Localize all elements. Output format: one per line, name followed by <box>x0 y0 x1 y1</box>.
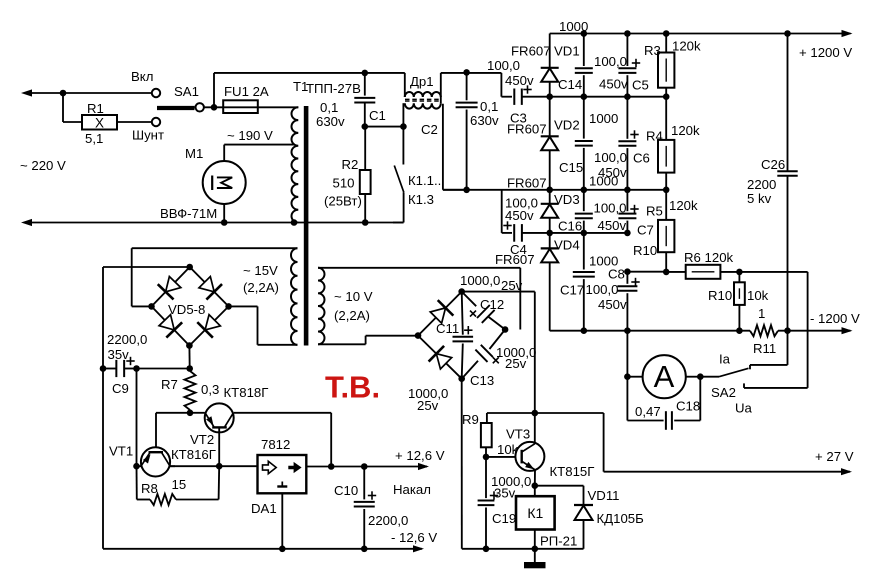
label К1.3 <box>408 192 434 207</box>
wire ~220V line-2 bottom with left arrow <box>21 219 403 226</box>
label 2200,0 (C10) <box>368 513 408 528</box>
label + 27 V <box>815 449 854 464</box>
label - 12,6 V <box>391 530 437 545</box>
svg-text:R3: R3 <box>644 43 661 58</box>
svg-text:Шунт: Шунт <box>132 128 164 143</box>
svg-text:450v: 450v <box>505 208 534 223</box>
svg-text:Др1: Др1 <box>410 74 434 89</box>
node R7 top / bridge plus <box>186 365 193 372</box>
node C14 top <box>581 30 588 37</box>
svg-text:К1.1..: К1.1.. <box>408 173 441 188</box>
svg-text:R7: R7 <box>161 377 178 392</box>
svg-text:25v: 25v <box>505 356 527 371</box>
capacitor C11 <box>453 292 474 379</box>
svg-text:120k: 120k <box>669 198 698 213</box>
label C7 <box>637 223 654 238</box>
wire -12,6V rail <box>103 545 424 552</box>
label R5 <box>646 204 663 219</box>
capacitor C1 <box>354 73 375 127</box>
wire motor to bottom rail <box>223 204 225 223</box>
label - 1200 V <box>810 311 860 326</box>
label Др1 <box>410 74 434 89</box>
node C1 top <box>362 70 369 77</box>
node ТВ bridge left <box>415 332 422 339</box>
svg-text:R5: R5 <box>646 204 663 219</box>
transformer T1 winding 10V <box>318 268 325 345</box>
label SA2 <box>711 385 736 400</box>
ground <box>524 549 546 569</box>
label C15 <box>559 160 583 175</box>
svg-text:A: A <box>654 359 675 394</box>
label VD5-8 <box>168 302 205 317</box>
label Вкл <box>131 69 153 84</box>
wire row D <box>522 232 628 234</box>
label 1000 (C17) <box>589 254 618 269</box>
node VD2-VD3 junction row C <box>546 187 553 194</box>
label 1000,0 (C11) <box>408 386 448 401</box>
resistor R3 <box>658 34 674 97</box>
diode VD6 (upper-right) <box>199 277 222 300</box>
svg-text:R4: R4 <box>646 129 663 144</box>
capacitor C14 <box>575 34 593 97</box>
svg-text:К1: К1 <box>527 505 543 521</box>
resistor R5 <box>658 190 674 272</box>
label C8 <box>608 267 625 282</box>
node C5 bottom <box>624 93 631 100</box>
node ТВ bridge bottom <box>458 375 465 382</box>
svg-text:630v: 630v <box>470 113 499 128</box>
node minus line C9 tap <box>100 365 107 372</box>
node R11-C26 junction <box>784 327 791 334</box>
resistor R4 <box>658 97 674 190</box>
resistor R10 <box>734 272 745 331</box>
label C6 <box>633 151 650 166</box>
capacitor C12 (top-right leg) <box>462 292 505 330</box>
switch SA1 contact Шунт (open circle) <box>152 118 160 126</box>
label C26 <box>761 157 785 172</box>
svg-text:~ 10 V: ~ 10 V <box>334 289 373 304</box>
regulator DA1 7812 <box>258 455 307 493</box>
svg-text:Накал: Накал <box>393 482 431 497</box>
wire VT3 base <box>486 456 524 458</box>
svg-text:120k: 120k <box>672 39 701 54</box>
wire ammeter right <box>686 376 701 378</box>
label Накал <box>393 482 431 497</box>
svg-text:~ 220 V: ~ 220 V <box>20 158 66 173</box>
svg-text:ТПП-27В: ТПП-27В <box>306 81 361 96</box>
label ВВФ-71М <box>160 206 217 221</box>
capacitor C18 <box>666 411 672 430</box>
svg-text:Вкл: Вкл <box>131 69 153 84</box>
svg-text:КТ816Г: КТ816Г <box>171 447 216 462</box>
svg-text:630v: 630v <box>316 114 345 129</box>
label C13 <box>470 373 494 388</box>
label 0,1 (C2) <box>480 99 498 114</box>
label C12 <box>480 297 504 312</box>
plus C11 <box>464 326 472 334</box>
svg-text:C6: C6 <box>633 151 650 166</box>
label FR607 (VD3) <box>507 176 547 191</box>
svg-text:VT3: VT3 <box>506 427 530 442</box>
svg-text:VD11: VD11 <box>588 488 620 503</box>
wire bridge plus down <box>188 346 190 369</box>
node C1 bottom <box>362 123 369 130</box>
wire bridge minus to left column <box>103 267 190 549</box>
svg-text:VT1: VT1 <box>109 444 133 459</box>
label ~ 220 V <box>20 158 66 173</box>
capacitor C6 <box>618 97 636 190</box>
svg-text:C8: C8 <box>608 267 625 282</box>
wire ammeter drop <box>626 331 628 377</box>
svg-text:10k: 10k <box>747 288 769 303</box>
label R3 <box>644 43 661 58</box>
svg-text:M1: M1 <box>185 146 203 161</box>
node motor on rail <box>221 219 228 226</box>
plus C5 <box>632 59 640 67</box>
label VD1 <box>554 44 580 59</box>
label 1000 (C14) <box>559 19 588 34</box>
label 120k (R4) <box>671 123 700 138</box>
label (2,2А) 10V <box>334 308 370 323</box>
wire row C <box>443 189 666 191</box>
label 450v (C3) <box>505 73 534 88</box>
wire choke B left down to K1 node <box>402 103 404 126</box>
wire -1200 rail left <box>550 330 750 332</box>
wire row E <box>627 271 666 273</box>
capacitor C8 <box>617 272 637 331</box>
wire corner into C4 <box>502 190 512 233</box>
label 15 <box>172 477 187 492</box>
node VT1 emitter <box>133 463 140 470</box>
wire -1200 rail right <box>778 327 853 334</box>
label 630v (C1) <box>316 114 345 129</box>
svg-text:C16: C16 <box>558 219 582 234</box>
label C2 <box>421 122 438 137</box>
label 450v (C8) <box>598 297 627 312</box>
label Шунт <box>132 128 164 143</box>
wire ~220V line-1 top with left arrow <box>21 89 152 96</box>
label 25v (C11) <box>417 398 439 413</box>
node bridge left corner <box>148 303 155 310</box>
diode VD3 <box>541 190 559 233</box>
wire row B <box>550 96 667 98</box>
node C9 plus junction <box>133 365 140 372</box>
node ТВ bridge top <box>458 288 465 295</box>
label 5,1 <box>85 131 103 146</box>
node R4-R5 junction <box>663 187 670 194</box>
wire VT2 base down <box>218 428 220 466</box>
label C19 <box>492 511 516 526</box>
svg-text:FU1 2A: FU1 2A <box>224 84 269 99</box>
label 2200,0 (C9) <box>107 332 147 347</box>
switch K1.1-K1.3 <box>393 127 404 223</box>
svg-text:0,47: 0,47 <box>635 404 661 419</box>
svg-text:C10: C10 <box>334 483 358 498</box>
wire +27V output <box>604 468 852 475</box>
label VD3 <box>554 192 580 207</box>
capacitor C3 <box>514 89 549 105</box>
svg-text:C7: C7 <box>637 223 654 238</box>
node C8 top <box>624 268 631 275</box>
label VD2 <box>554 118 580 133</box>
label 0,47 <box>635 404 661 419</box>
label C17 <box>560 282 584 297</box>
ammeter A <box>627 355 685 398</box>
label 7812 <box>261 437 290 452</box>
label SA1 <box>174 84 199 99</box>
label ~ 10 V <box>334 289 373 304</box>
svg-text:C9: C9 <box>112 381 129 396</box>
label C18 <box>676 399 700 414</box>
plus C6 <box>630 130 638 138</box>
node C26 top <box>784 30 791 37</box>
label 510 <box>333 176 355 191</box>
label R4 <box>646 129 663 144</box>
node ammeter left <box>624 373 631 380</box>
node VD3-VD4 junction row D <box>546 230 553 237</box>
label К1.1.. <box>408 173 441 188</box>
label C5 <box>632 78 649 93</box>
label 1 (R11) <box>758 306 765 321</box>
svg-text:VD5-8: VD5-8 <box>168 302 205 317</box>
node bridge right corner <box>225 303 232 310</box>
node C17 bottom <box>581 327 588 334</box>
plus C4 <box>503 221 511 229</box>
transistor VT1 КТ816Г <box>137 447 176 476</box>
label FR607 (VD4) <box>495 252 535 267</box>
svg-text:(2,2А): (2,2А) <box>243 280 279 295</box>
svg-text:2200,0: 2200,0 <box>368 513 408 528</box>
label C14 <box>558 77 582 92</box>
svg-text:120k: 120k <box>671 123 700 138</box>
cross C13 <box>493 357 499 363</box>
wire VT3 collector to +27 corner <box>535 413 604 472</box>
svg-text:C15: C15 <box>559 160 583 175</box>
capacitor C4 <box>514 224 522 242</box>
svg-text:DA1: DA1 <box>251 501 277 516</box>
svg-text:100,0: 100,0 <box>586 282 619 297</box>
wire +1200 rail <box>550 30 853 37</box>
label 100,0 (C5) <box>594 54 627 69</box>
svg-text:VD4: VD4 <box>554 238 580 253</box>
label R1 <box>87 101 104 116</box>
transistor VT3 КТ815Г <box>515 442 544 471</box>
label 1000,0 (C12) <box>460 273 500 288</box>
label 100,0 (C6) <box>594 150 627 165</box>
node DA1 ground on rail <box>279 546 286 553</box>
capacitor C17 <box>573 233 595 331</box>
svg-text:R2: R2 <box>342 157 359 172</box>
transistor VT2 КТ818Г <box>205 403 234 432</box>
wire top line choke to C3 corner <box>441 72 502 74</box>
wire VT1 emitter drop <box>136 369 138 467</box>
svg-text:R10: R10 <box>708 288 732 303</box>
label 100,0 (C4) <box>505 196 538 211</box>
capacitor C26 <box>777 34 797 331</box>
label Ua <box>735 401 753 416</box>
svg-text:РП-21: РП-21 <box>540 534 577 549</box>
wire VT3 collector up <box>534 413 536 444</box>
label 630v (C2) <box>470 113 499 128</box>
label VT1 <box>109 444 133 459</box>
node bridge top corner <box>186 264 193 271</box>
svg-text:510: 510 <box>333 176 355 191</box>
wire VT1 collector to 7812 <box>170 465 258 467</box>
svg-text:- 1200 V: - 1200 V <box>810 311 860 326</box>
svg-text:ВВФ-71М: ВВФ-71М <box>160 206 217 221</box>
diode VD2 <box>541 97 559 190</box>
wire 10V bottom lead <box>318 336 418 345</box>
svg-text:FR607: FR607 <box>511 44 551 59</box>
svg-text:100,0: 100,0 <box>594 54 627 69</box>
wire top line to choke <box>214 72 405 74</box>
svg-text:(25Вт): (25Вт) <box>324 194 362 209</box>
wire branch up from SA1 node <box>213 73 215 107</box>
capacitor C15 <box>575 97 593 190</box>
resistor R1 (shunt X) <box>63 115 152 130</box>
svg-text:100,0: 100,0 <box>487 58 520 73</box>
wire 190V tap <box>224 145 295 161</box>
diode VD11 <box>574 505 593 549</box>
node C14 bottom <box>581 93 588 100</box>
svg-text:SA1: SA1 <box>174 84 199 99</box>
node K1 bottom on rail <box>532 546 539 553</box>
svg-text:C17: C17 <box>560 282 584 297</box>
svg-text:100,0: 100,0 <box>594 150 627 165</box>
node bridge bottom corner <box>186 342 193 349</box>
label 25v (C12) <box>501 278 523 293</box>
svg-text:Т.В.: Т.В. <box>325 370 380 405</box>
svg-text:C14: C14 <box>558 77 582 92</box>
svg-text:0,1: 0,1 <box>320 100 338 115</box>
wire plus link C9 to R7 <box>137 368 191 370</box>
label + 12,6 V <box>395 448 445 463</box>
svg-text:2200,0: 2200,0 <box>107 332 147 347</box>
wire R9 top link <box>487 413 535 423</box>
node SA1 output <box>211 104 218 111</box>
label КТ815Г <box>550 464 595 479</box>
node junction on line-1 <box>60 90 67 97</box>
node C6 bottom <box>624 187 631 194</box>
resistor R8 zigzag <box>137 466 220 505</box>
wire SA1 to fuse <box>205 106 224 108</box>
wire base link left <box>156 413 190 456</box>
label R9 <box>462 412 479 427</box>
svg-text:450v: 450v <box>598 218 627 233</box>
resistor R11 zigzag <box>750 325 778 336</box>
node R7 bottom <box>187 410 194 417</box>
wire relay ground rail <box>462 548 584 550</box>
label 10k <box>747 288 769 303</box>
label 0,3 <box>201 382 219 397</box>
wire VT2 emitter link <box>190 412 205 414</box>
node VT2 base / R8 right <box>216 463 223 470</box>
capacitor C2 <box>456 72 478 189</box>
svg-text:35v: 35v <box>108 347 130 362</box>
svg-text:Ua: Ua <box>735 401 753 416</box>
node R10 top <box>736 269 743 276</box>
label C11 <box>436 321 459 336</box>
wire ТВ plus to VT3 <box>462 292 535 413</box>
wire R1 branch down <box>62 92 64 122</box>
label FU1 2A <box>224 84 269 99</box>
svg-text:2200: 2200 <box>747 177 776 192</box>
label FR607 (VD2) <box>507 122 547 137</box>
label C16 <box>558 219 582 234</box>
node ammeter right <box>697 373 704 380</box>
svg-text:0,3: 0,3 <box>201 382 219 397</box>
svg-text:1: 1 <box>758 306 765 321</box>
label C3 <box>510 111 527 126</box>
label КТ818Г <box>224 385 269 400</box>
svg-text:R8: R8 <box>141 481 158 496</box>
choke Др1 winding A <box>405 73 441 97</box>
label 450v (C5) <box>599 77 628 92</box>
label 35v (C19) <box>494 486 516 501</box>
svg-text:FR607: FR607 <box>507 176 547 191</box>
wire bridge AC right <box>229 306 298 344</box>
svg-text:R1: R1 <box>87 101 104 116</box>
label 2200 (C26) <box>747 177 776 192</box>
svg-text:C5: C5 <box>632 78 649 93</box>
fuse FU1 <box>223 100 258 113</box>
label R6 120k <box>684 250 734 265</box>
svg-text:C26: C26 <box>761 157 785 172</box>
label FR607 (VD1) <box>511 44 551 59</box>
label + 1200 V <box>799 45 852 60</box>
svg-text:КТ815Г: КТ815Г <box>550 464 595 479</box>
label VD11 <box>588 488 620 503</box>
capacitor C5 <box>618 34 636 97</box>
plus C8 <box>631 278 639 286</box>
svg-text:+ 12,6 V: + 12,6 V <box>395 448 445 463</box>
label C1 <box>369 108 386 123</box>
svg-text:C12: C12 <box>480 297 504 312</box>
label 450v (C4) <box>505 208 534 223</box>
label R7 <box>161 377 178 392</box>
svg-text:25v: 25v <box>417 398 439 413</box>
svg-text:+ 1200 V: + 1200 V <box>799 45 852 60</box>
diode VD5 (upper-left) <box>158 276 181 299</box>
svg-text:~ 190 V: ~ 190 V <box>227 128 273 143</box>
node C5 top <box>624 30 631 37</box>
label 450v (C16) <box>598 218 627 233</box>
svg-text:5,1: 5,1 <box>85 131 103 146</box>
wire VT2 collector right <box>234 413 332 467</box>
switch SA1 blade (thick) <box>157 106 195 110</box>
transformer T1 winding 15V <box>291 248 298 345</box>
wire C18 left leg <box>627 377 663 421</box>
node C10 top <box>361 463 368 470</box>
capacitor C16 <box>575 190 593 233</box>
label 1000 (C16 upper) <box>589 174 618 189</box>
choke Др1 winding B <box>405 73 441 109</box>
wire 7812 output <box>306 463 429 470</box>
svg-text:450v: 450v <box>598 297 627 312</box>
node VT2 collector join <box>328 463 335 470</box>
wire C18 right leg <box>674 377 700 421</box>
svg-text:~ 15V: ~ 15V <box>243 263 278 278</box>
label 100,0 (C8) <box>586 282 619 297</box>
transformer T1 primary winding <box>291 107 298 222</box>
svg-text:Ia: Ia <box>719 352 731 367</box>
svg-text:450v: 450v <box>598 165 627 180</box>
node K1.1 top <box>400 123 407 130</box>
label R10 (upper) <box>633 243 657 258</box>
label VD4 <box>554 238 580 253</box>
svg-text:- 12,6 V: - 12,6 V <box>391 530 437 545</box>
label R8 <box>141 481 158 496</box>
